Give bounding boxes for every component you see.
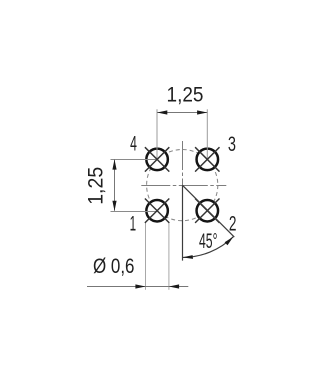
pin 4 cross mark	[145, 147, 169, 171]
arrowhead left of top dimension	[157, 110, 167, 114]
extension line from pin 1 left edge down to diameter dimension	[145, 222, 147, 289]
svg-text:1,25: 1,25	[167, 81, 204, 106]
pin 3 contact circle	[197, 149, 219, 171]
diameter dimension line between extension lines	[146, 286, 169, 288]
arrowhead left of diameter dimension	[135, 284, 145, 288]
angle dimension vertical leg	[182, 185, 184, 260]
angle dimension diagonal leg through pin 2	[182, 185, 234, 237]
arrowhead right of diameter dimension	[169, 284, 179, 288]
diameter dimension tail line	[169, 286, 188, 288]
extension line from pin 4 up to 1,25 dimension	[156, 109, 158, 159]
svg-text:3: 3	[228, 133, 236, 156]
angle dimension arc 45 degrees	[183, 237, 234, 258]
pin 1 cross mark	[145, 199, 169, 223]
diameter dimension leader line	[87, 286, 146, 288]
svg-text:4: 4	[130, 133, 137, 156]
arrowhead bottom of left dimension	[112, 201, 116, 211]
arrowhead right of top dimension	[197, 110, 207, 114]
extension line from pin 1 left to 1,25 dimension	[111, 211, 158, 213]
arrowhead top of left dimension	[112, 159, 116, 169]
arrowhead at upper end of angle arc	[225, 237, 234, 246]
svg-text:45°: 45°	[199, 230, 218, 253]
pin bolt circle (dashed)	[147, 150, 218, 221]
svg-text:1: 1	[130, 212, 137, 235]
extension line from pin 3 up to 1,25 dimension	[206, 109, 208, 159]
pin 1 contact circle	[146, 200, 168, 222]
pin 4 contact circle	[146, 149, 168, 171]
svg-text:Ø 0,6: Ø 0,6	[93, 253, 135, 278]
svg-text:2: 2	[229, 212, 237, 235]
horizontal dimension line 1,25 (top)	[157, 112, 207, 114]
pin 2 contact circle	[197, 200, 219, 222]
center horizontal axis	[141, 185, 226, 187]
pin 3 cross mark	[195, 147, 219, 171]
extension line from pin 4 left to 1,25 dimension	[111, 159, 158, 161]
pin 2 cross mark	[195, 199, 219, 223]
vertical dimension line 1,25 (left)	[114, 159, 116, 210]
svg-text:1,25: 1,25	[83, 167, 108, 205]
arrowhead at bottom end of angle arc	[183, 255, 194, 259]
center vertical axis	[182, 141, 184, 260]
extension line from pin 1 right edge down to diameter dimension	[168, 222, 170, 289]
